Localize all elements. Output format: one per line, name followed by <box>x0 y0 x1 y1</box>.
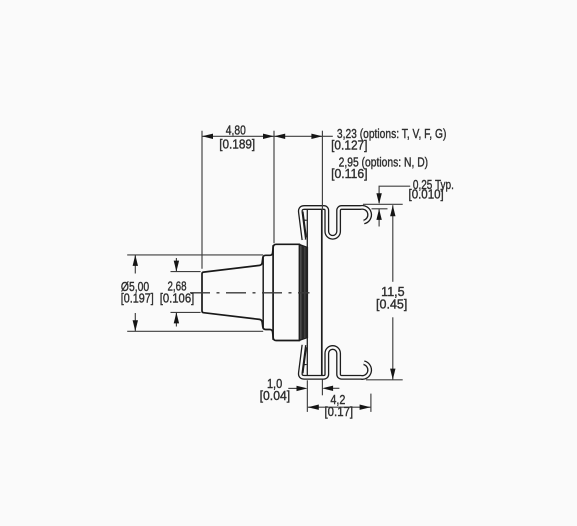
svg-text:[0.189]: [0.189] <box>219 136 255 151</box>
svg-text:[0.106]: [0.106] <box>160 291 195 306</box>
svg-text:[0.010]: [0.010] <box>409 187 444 202</box>
svg-text:[0.45]: [0.45] <box>376 297 407 312</box>
svg-text:[0.197]: [0.197] <box>121 291 154 306</box>
svg-text:[0.116]: [0.116] <box>331 166 367 181</box>
svg-text:[0.17]: [0.17] <box>325 404 354 419</box>
svg-text:[0.04]: [0.04] <box>260 388 291 403</box>
svg-text:[0.127]: [0.127] <box>331 138 367 153</box>
